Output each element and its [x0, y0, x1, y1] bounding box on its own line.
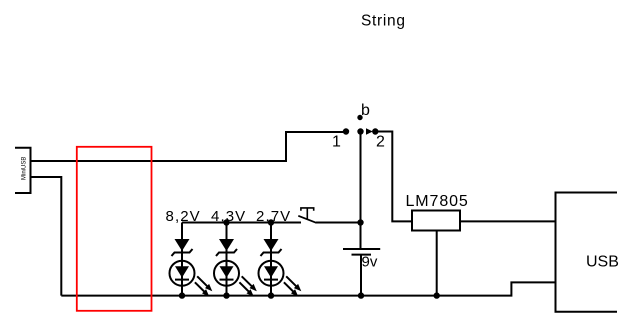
rotary switch S1 common node [357, 128, 363, 134]
regulator U1 label LM7805 [406, 193, 469, 210]
node junction rail/branch1 [179, 292, 185, 298]
wire branch 2 vertical [226, 223, 228, 297]
rotary switch S1 pole node b [357, 115, 362, 120]
battery label 9v [362, 254, 378, 271]
rotary switch S1 terminal 2 node [372, 128, 378, 134]
node junction bus/branch3 [268, 219, 274, 225]
rotary switch S1 label 1 [332, 134, 341, 151]
wire ground rail [61, 282, 555, 295]
label 4,3V [211, 208, 246, 225]
svg-text:LM7805: LM7805 [406, 193, 469, 210]
node junction rail/regulator gnd [434, 292, 440, 298]
highlight box (red) [77, 147, 152, 311]
connector J1 label MiniUSB [22, 157, 28, 180]
wire regulator ground pin [436, 231, 438, 296]
node junction rail/battery [358, 292, 364, 298]
wire J1 pin1 to switch terminal 1 [31, 132, 345, 161]
regulator U1 LM7805 body [412, 211, 460, 231]
node junction rail/branch3 [268, 292, 274, 298]
svg-text:2,7V: 2,7V [256, 208, 291, 225]
connector J2 label USB [586, 253, 619, 270]
wire switch S2 to battery node [316, 222, 361, 224]
node junction rail/branch2 [223, 292, 229, 298]
label 2,7V [256, 208, 291, 225]
svg-text:b: b [361, 102, 370, 119]
svg-text:9v: 9v [362, 254, 378, 271]
connector J1 MiniUSB body [15, 148, 31, 193]
zener diode D3 2,7V [261, 239, 282, 256]
wire terminal2 to LM7805 input [375, 132, 412, 222]
wire regulator output to USB [460, 220, 556, 222]
svg-text:String: String [361, 13, 406, 30]
svg-text:4,3V: 4,3V [211, 208, 246, 225]
battery BT1 9v [343, 249, 380, 296]
svg-text:MiniUSB: MiniUSB [22, 157, 28, 180]
zener diode D1 8,2V [172, 239, 193, 256]
wire LED string top bus [182, 222, 301, 224]
LED LED3 [259, 261, 302, 297]
label 8,2V [166, 208, 201, 225]
wire common node to battery [360, 132, 362, 250]
push switch S2 [298, 208, 316, 223]
wire branch 3 vertical [270, 223, 272, 297]
svg-text:1: 1 [332, 134, 341, 151]
node junction battery/switch [357, 219, 363, 225]
wire J1 pin2 to ground rail [31, 177, 62, 296]
connector J2 USB body [556, 193, 618, 312]
wire branch 1 vertical [181, 223, 183, 297]
rotary switch S1 label b [361, 102, 370, 119]
svg-text:USB: USB [586, 253, 619, 270]
LED LED2 [214, 261, 257, 297]
svg-text:8,2V: 8,2V [166, 208, 201, 225]
rotary switch S1 terminal 1 node [343, 128, 349, 134]
svg-text:2: 2 [376, 134, 385, 151]
zener diode D2 4,3V [216, 239, 237, 256]
title label "String" [361, 13, 406, 30]
node junction bus/branch2 [223, 219, 229, 225]
LED LED1 [170, 261, 213, 297]
rotary switch S1 label 2 [376, 134, 385, 151]
rotary switch S1 wiper arrow [366, 128, 373, 135]
